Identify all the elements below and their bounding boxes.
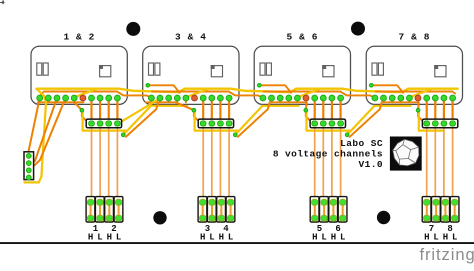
relay module U2 (3 & 4) — [143, 46, 239, 104]
via — [345, 133, 349, 137]
wire yellow to pad5 — [297, 89, 320, 98]
mounting hole — [377, 211, 390, 224]
wire yellow connector wrap — [419, 112, 443, 131]
via — [146, 83, 150, 87]
mounting hole — [351, 22, 365, 36]
wires relay U2 to headers — [203, 98, 229, 198]
header block channels 7-8 — [422, 197, 459, 222]
wire yellow link to next module — [235, 106, 262, 135]
svg-text:7 & 8: 7 & 8 — [399, 32, 431, 43]
via — [369, 83, 373, 87]
relay module U1 (1 & 2) — [31, 46, 127, 104]
svg-text:8 voltage channels: 8 voltage channels — [273, 148, 383, 159]
wire orange pad4-J5 — [29, 98, 66, 170]
wires relay U4 to headers — [427, 98, 453, 198]
wire yellow diag — [117, 98, 160, 124]
wire yellow pad2-J5 wrap — [24, 89, 46, 183]
relay module U4 (7 & 8) — [366, 46, 462, 104]
wire orange bus — [152, 92, 263, 99]
wire orange to connector — [176, 102, 203, 123]
mounting hole — [153, 211, 166, 224]
svg-text:1 & 2: 1 & 2 — [63, 32, 95, 43]
connector J3 (4-pin) — [310, 119, 345, 128]
svg-text:H: H — [312, 232, 317, 242]
svg-text:3 & 4: 3 & 4 — [175, 32, 207, 43]
silkscreen pin labels 3 4 / H L H L — [200, 224, 233, 243]
wire yellow link to next module — [123, 106, 151, 135]
wire orange bus — [40, 92, 152, 99]
pads of relay U2 — [148, 95, 232, 101]
wire orange stub — [148, 85, 180, 93]
via — [233, 133, 237, 137]
silkscreen logo (dodecahedron) — [390, 137, 422, 171]
wire orange under-pad rail — [382, 98, 419, 102]
wire yellow under-pad rail — [262, 105, 298, 107]
svg-text:H: H — [443, 232, 448, 242]
svg-text:V1.0: V1.0 — [359, 159, 383, 170]
wire orange under-pad rail — [38, 98, 84, 102]
connector J4 (4-pin) — [422, 119, 457, 128]
via — [257, 83, 261, 87]
wire orange stub — [371, 85, 403, 93]
svg-text:L: L — [433, 232, 438, 242]
wire orange bus — [376, 92, 456, 94]
pads of relay U3 — [260, 95, 344, 101]
via — [304, 108, 308, 112]
connector J5 (4-pin vertical) — [24, 152, 34, 180]
wire yellow under-pad rail — [374, 105, 410, 107]
wire orange under-pad rail — [146, 98, 186, 102]
pads of relay U4 — [372, 95, 456, 101]
wire yellow link to next module — [347, 106, 374, 135]
wire yellow connector wrap — [83, 112, 126, 135]
wire yellow to pad5 — [409, 89, 432, 98]
svg-text:L: L — [116, 232, 121, 242]
silkscreen pin labels 7 8 / H L H L — [424, 224, 457, 243]
via — [121, 133, 125, 137]
mounting hole — [126, 22, 140, 36]
svg-text:L: L — [452, 232, 457, 242]
svg-text:H: H — [424, 232, 429, 242]
svg-text:H: H — [219, 232, 224, 242]
wire yellow under-pad rail — [151, 105, 187, 107]
svg-text:L: L — [228, 232, 233, 242]
connector J1 (4-pin) — [86, 119, 121, 128]
wire orange pad3-J5 — [29, 98, 57, 163]
svg-text:Labo SC: Labo SC — [340, 138, 383, 149]
header block channels 5-6 — [310, 197, 347, 222]
silkscreen label Labo SC / 8 voltage channels / V1.0 — [273, 138, 383, 170]
header block channels 1-2 — [86, 197, 123, 222]
svg-text:H: H — [200, 232, 205, 242]
wires relay U3 to headers — [315, 98, 341, 198]
board bottom edge — [0, 242, 474, 244]
svg-text:H: H — [107, 232, 112, 242]
wire yellow supply bus — [37, 89, 458, 93]
header block channels 3-4 — [198, 197, 235, 222]
wire yellow to pad5 — [74, 89, 97, 98]
svg-text:fritzing: fritzing — [420, 245, 474, 264]
board origin mark — [0, 0, 5, 4]
relay module U3 (5 & 6) — [254, 46, 350, 104]
wire orange pad1-J5 — [28, 98, 40, 156]
wire orange to connector — [306, 102, 315, 123]
wire orange link to next module — [126, 102, 158, 137]
svg-text:L: L — [321, 232, 326, 242]
svg-text:5 & 6: 5 & 6 — [287, 32, 319, 43]
connector J2 (4-pin) — [198, 119, 233, 128]
via — [192, 108, 196, 112]
wire orange to connector — [74, 102, 91, 123]
wire orange link to next module — [238, 102, 270, 137]
svg-text:H: H — [88, 232, 93, 242]
wire orange under-pad rail — [270, 98, 307, 102]
wire yellow to pad5 — [186, 89, 209, 98]
silkscreen pin labels 1 2 / H L H L — [88, 224, 121, 243]
svg-text:L: L — [209, 232, 214, 242]
wires relay U1 to headers — [92, 98, 118, 198]
via — [80, 108, 84, 112]
wire yellow connector wrap — [195, 112, 238, 135]
wire yellow connector wrap — [307, 112, 350, 135]
pads of relay U1 — [37, 95, 121, 101]
silkscreen pin labels 5 6 / H L H L — [312, 224, 345, 243]
via — [416, 108, 420, 112]
svg-text:H: H — [331, 232, 336, 242]
wire orange stub — [259, 85, 291, 93]
wire orange link to next module — [350, 102, 382, 137]
svg-text:L: L — [340, 232, 345, 242]
svg-text:L: L — [97, 232, 102, 242]
wire orange bus — [264, 92, 375, 99]
wire orange to connector — [418, 102, 427, 123]
